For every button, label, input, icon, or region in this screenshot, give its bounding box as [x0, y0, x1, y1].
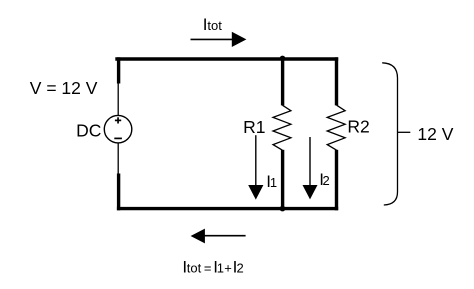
svg-text:V = 12 V: V = 12 V: [30, 78, 98, 98]
svg-text:12 V: 12 V: [417, 124, 453, 144]
svg-text:I2: I2: [319, 170, 329, 189]
svg-text:Itot: Itot: [203, 15, 223, 34]
svg-text:I1: I1: [266, 172, 277, 191]
svg-text:R2: R2: [347, 117, 369, 137]
svg-text:DC: DC: [76, 121, 101, 141]
svg-text:Itot=I1+I2: Itot=I1+I2: [182, 258, 243, 277]
svg-text:R1: R1: [243, 117, 265, 137]
